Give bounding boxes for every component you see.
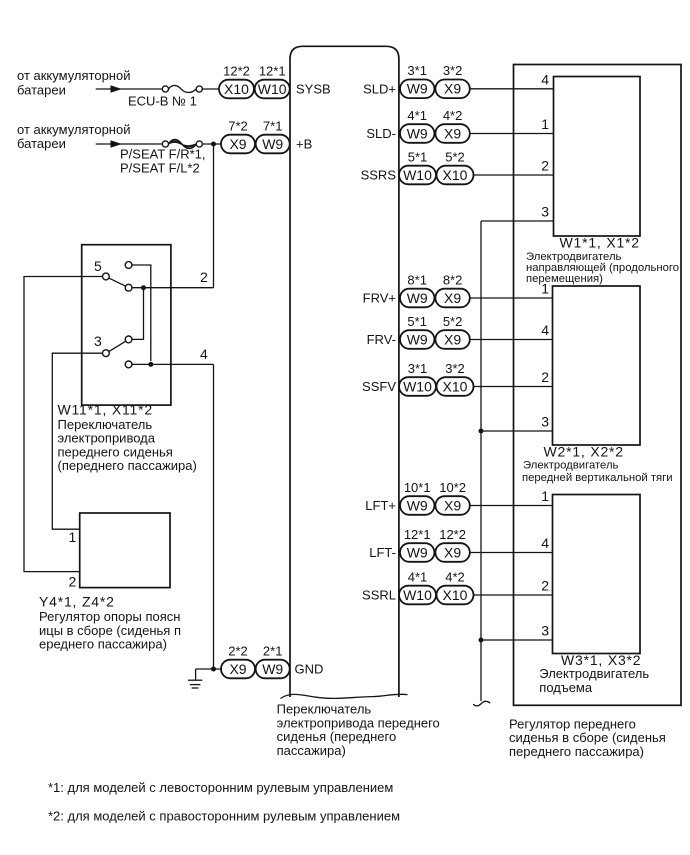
svg-text:Электродвигатель: Электродвигатель (523, 460, 619, 472)
wire: battery feed 1 to fuse (96, 88, 162, 90)
svg-text:X10: X10 (224, 81, 249, 97)
wire: contact D out to pin 4 (132, 363, 214, 365)
wire: SSFV to motor W2 pin 2 (474, 386, 553, 388)
svg-text:12*1: 12*1 (259, 63, 286, 78)
node: ground bus junction W2 (479, 429, 484, 434)
wire: SSRL to motor W3 pin 2 (474, 594, 553, 596)
svg-text:X9: X9 (444, 125, 461, 141)
wire: FRV+ to motor W2 pin 1 (470, 297, 553, 299)
svg-text:W9: W9 (262, 136, 283, 152)
svg-text:SLD+: SLD+ (363, 81, 396, 96)
contact D (lower fixed) (125, 361, 132, 368)
connector W10 pin 12*1 (255, 63, 290, 98)
svg-text:W2*1, X2*2: W2*1, X2*2 (544, 444, 624, 460)
connector X9 pin 7*2 (221, 118, 255, 153)
svg-text:12*2: 12*2 (439, 527, 466, 542)
svg-text:4*2: 4*2 (445, 569, 465, 584)
motor W3 body (553, 495, 641, 654)
svg-text:3*2: 3*2 (445, 361, 465, 376)
motor W1 label (526, 234, 679, 285)
svg-text:W10: W10 (403, 587, 432, 603)
svg-text:Регулятор переднего: Регулятор переднего (509, 716, 636, 731)
node: ground junction (211, 667, 216, 672)
svg-text:4: 4 (541, 535, 549, 551)
connector W10 pin 5*1 (399, 149, 436, 184)
svg-text:2: 2 (200, 269, 208, 285)
svg-text:пассажира): пассажира) (277, 743, 346, 758)
connector X9 pin 12*2 (435, 527, 469, 562)
wire: W2 pin 3 to ground bus (481, 430, 553, 432)
svg-text:передней вертикальной тяги: передней вертикальной тяги (522, 472, 673, 484)
torn edge of switch unit (281, 694, 408, 698)
svg-text:W10: W10 (403, 167, 432, 183)
switch unit label (277, 702, 440, 758)
svg-text:2: 2 (541, 158, 549, 174)
svg-text:электропривода переднего: электропривода переднего (277, 715, 440, 730)
svg-text:1: 1 (541, 281, 549, 297)
svg-text:от аккумуляторной: от аккумуляторной (17, 68, 130, 83)
connector W9 pin 8*1 (400, 272, 434, 307)
svg-text:ECU-B № 1: ECU-B № 1 (128, 93, 197, 108)
svg-text:5*2: 5*2 (445, 149, 465, 164)
svg-text:сиденья в сборе (сиденья: сиденья в сборе (сиденья (509, 730, 666, 745)
node: D junction (148, 362, 153, 367)
svg-text:W10: W10 (403, 378, 432, 394)
wire: switch pin 5 to lumbar motor pin 2 (24, 277, 103, 572)
svg-text:Переключатель: Переключатель (58, 417, 153, 432)
connector X9 pin 2*2 (221, 643, 255, 678)
wire: SLD+ to motor W1 pin 4 (470, 88, 554, 90)
svg-text:4*2: 4*2 (443, 108, 463, 123)
svg-text:переднего пассажира): переднего пассажира) (509, 744, 644, 759)
svg-text:X9: X9 (444, 544, 461, 560)
svg-text:W9: W9 (407, 544, 428, 560)
svg-text:3*1: 3*1 (407, 63, 427, 78)
svg-text:1: 1 (69, 529, 77, 545)
contact pin 3 (pole) (103, 350, 110, 357)
connector X9 pin 10*2 (435, 480, 469, 515)
svg-text:направляющей (продольного: направляющей (продольного (526, 262, 679, 274)
svg-text:перемещения): перемещения) (526, 273, 603, 285)
wire: W3 pin 3 to ground bus (481, 639, 553, 641)
svg-text:*1: для моделей с левосторонни: *1: для моделей с левосторонним рулевым … (48, 780, 393, 795)
connector X9 pin 5*2 (435, 314, 469, 349)
wire: contact A to right bus (132, 265, 151, 361)
svg-text:X9: X9 (444, 331, 461, 347)
wire: switch pin 4 down to ground junction (213, 364, 215, 669)
svg-text:12*1: 12*1 (404, 527, 431, 542)
connector W10 pin 4*1 (399, 569, 436, 604)
svg-text:7*2: 7*2 (228, 118, 248, 133)
svg-text:4: 4 (541, 322, 549, 338)
svg-text:переднего сиденья: переднего сиденья (58, 444, 173, 459)
wire: LFT+ to motor W3 pin 1 (470, 505, 553, 507)
svg-text:LFT-: LFT- (369, 545, 396, 560)
wire: contact B out to pin 2 (132, 287, 214, 289)
svg-text:(переднего пассажира): (переднего пассажира) (58, 458, 197, 473)
connector W9 pin 7*1 (256, 118, 290, 153)
arrow: feed 1 direction (111, 85, 122, 93)
node: battery feed label 1 (17, 68, 130, 97)
svg-text:5*1: 5*1 (407, 314, 427, 329)
svg-text:W10: W10 (258, 81, 287, 97)
svg-text:SYSB: SYSB (296, 81, 331, 96)
wire: SSRS to motor W1 pin 2 (474, 174, 554, 176)
svg-text:2*1: 2*1 (263, 643, 283, 658)
svg-text:батареи: батареи (17, 82, 66, 97)
svg-text:5*2: 5*2 (443, 314, 463, 329)
wire: W1 pin 3 to ground bus (481, 220, 554, 222)
svg-text:2*2: 2*2 (228, 643, 248, 658)
svg-text:2: 2 (541, 369, 549, 385)
connector X10 pin 4*2 (437, 569, 474, 604)
svg-text:8*1: 8*1 (407, 272, 427, 287)
svg-text:GND: GND (295, 661, 324, 676)
wire: fuse 1 to connector X10 (202, 88, 219, 90)
svg-text:8*2: 8*2 (443, 272, 463, 287)
svg-text:4*1: 4*1 (407, 108, 427, 123)
svg-text:+B: +B (296, 136, 312, 151)
connector W9 pin 3*1 (400, 63, 434, 98)
svg-text:W9: W9 (407, 125, 428, 141)
svg-text:5: 5 (94, 258, 102, 274)
connector X9 pin 8*2 (435, 272, 469, 307)
svg-text:W11*1, X11*2: W11*1, X11*2 (58, 402, 153, 418)
wire: LFT- to motor W3 pin 4 (470, 552, 553, 554)
svg-text:Регулятор опоры поясн: Регулятор опоры поясн (39, 609, 180, 624)
motor Y4 label (39, 594, 181, 652)
seat switch unit body (torn bottom) (290, 46, 399, 697)
svg-text:3*1: 3*1 (408, 361, 428, 376)
svg-text:P/SEAT F/L*2: P/SEAT F/L*2 (120, 161, 200, 176)
wire: fusible link to connector X9 (202, 143, 221, 145)
connector X9 pin 4*2 (435, 108, 469, 143)
svg-text:X10: X10 (443, 378, 468, 394)
svg-text:FRV+: FRV+ (363, 290, 396, 305)
wire: SLD- to motor W1 pin 1 (470, 133, 554, 135)
wire: +B branch down to switch pin 2 (213, 144, 215, 288)
motor W3 label (539, 652, 649, 695)
arrow: feed 2 direction (111, 140, 122, 148)
svg-text:от аккумуляторной: от аккумуляторной (17, 122, 130, 137)
svg-text:SSRL: SSRL (362, 587, 396, 602)
motor W2 label (522, 444, 673, 485)
svg-text:X9: X9 (444, 497, 461, 513)
wire: battery feed 2 to fusible link (96, 143, 162, 145)
seat adjuster assembly label (509, 716, 666, 759)
lever lower switch (109, 341, 126, 351)
svg-text:5*1: 5*1 (408, 149, 428, 164)
svg-text:ицы в сборе (сиденья п: ицы в сборе (сиденья п (39, 623, 181, 638)
lever upper switch (109, 278, 126, 286)
svg-text:X9: X9 (229, 661, 246, 677)
connector W9 pin 12*1 (400, 527, 434, 562)
svg-text:W1*1, X1*2: W1*1, X1*2 (560, 234, 640, 250)
svg-text:4*1: 4*1 (408, 569, 428, 584)
svg-text:батареи: батареи (17, 136, 66, 151)
svg-text:SSFV: SSFV (362, 379, 396, 394)
contact pin 5 (pole) (103, 273, 110, 280)
svg-text:W9: W9 (407, 497, 428, 513)
switch W11 label (58, 402, 197, 474)
ground symbol (188, 669, 202, 688)
svg-text:X9: X9 (444, 81, 461, 97)
node: B junction (141, 285, 146, 290)
svg-text:SLD-: SLD- (366, 126, 396, 141)
node: ground bus junction W3 (479, 638, 484, 643)
svg-text:X10: X10 (443, 587, 468, 603)
svg-text:SSRS: SSRS (361, 167, 397, 182)
svg-text:2: 2 (69, 574, 77, 590)
svg-text:электропривода: электропривода (58, 431, 156, 446)
svg-text:10*1: 10*1 (404, 480, 431, 495)
motor W2 body (553, 286, 641, 445)
node: +B branch junction (211, 142, 216, 147)
svg-text:1: 1 (541, 116, 549, 132)
svg-text:W9: W9 (407, 290, 428, 306)
svg-text:X10: X10 (443, 167, 468, 183)
svg-text:LFT+: LFT+ (365, 498, 396, 513)
connector W9 pin 5*1 (400, 314, 434, 349)
svg-text:W9: W9 (407, 331, 428, 347)
svg-text:FRV-: FRV- (367, 332, 396, 347)
connector W9 pin 4*1 (400, 108, 434, 143)
svg-text:2: 2 (541, 578, 549, 594)
wire: B junction down to contact C (132, 288, 144, 340)
svg-text:W9: W9 (262, 661, 283, 677)
svg-text:3: 3 (541, 414, 549, 430)
svg-text:Переключатель: Переключатель (277, 702, 372, 717)
fusible link P/SEAT F/R*1, P/SEAT F/L*2 (120, 139, 206, 175)
svg-text:3: 3 (541, 623, 549, 639)
switch W11 body (82, 245, 171, 405)
contact C (upper fixed of lower switch) (125, 336, 132, 343)
svg-text:*2: для моделей с правосторонн: *2: для моделей с правосторонним рулевым… (48, 809, 400, 824)
wire: ground bus (480, 221, 482, 701)
svg-text:Электродвигатель: Электродвигатель (539, 666, 649, 681)
wire: ground to connector X9 (196, 668, 221, 670)
contact A (upper fixed) (125, 262, 132, 269)
connector W9 pin 2*1 (256, 643, 290, 678)
svg-text:3: 3 (541, 204, 549, 220)
svg-text:сиденья (переднего: сиденья (переднего (277, 729, 397, 744)
svg-text:Электродвигатель: Электродвигатель (526, 251, 622, 263)
connector X9 pin 3*2 (435, 63, 469, 98)
svg-text:3: 3 (94, 333, 102, 349)
motor W1 body (554, 77, 641, 237)
svg-text:4: 4 (200, 346, 208, 362)
contact B (lower fixed of upper switch) (125, 284, 132, 291)
connector X10 pin 3*2 (437, 361, 474, 396)
connector W9 pin 10*1 (400, 480, 434, 515)
svg-text:4: 4 (541, 71, 549, 87)
svg-text:X9: X9 (444, 290, 461, 306)
svg-text:ереднего пассажира): ереднего пассажира) (39, 637, 167, 652)
svg-text:P/SEAT F/R*1,: P/SEAT F/R*1, (120, 147, 206, 162)
svg-text:Y4*1, Z4*2: Y4*1, Z4*2 (39, 594, 115, 610)
fuse ECU-B № 1 (128, 85, 202, 108)
seat adjuster assembly outer box (514, 65, 682, 706)
svg-text:7*1: 7*1 (263, 118, 283, 133)
connector W10 pin 3*1 (399, 361, 436, 396)
connector X10 pin 12*2 (219, 63, 254, 98)
svg-text:12*2: 12*2 (223, 63, 250, 78)
svg-text:W9: W9 (407, 81, 428, 97)
motor Y4 lumbar support body (80, 513, 170, 588)
svg-text:3*2: 3*2 (443, 63, 463, 78)
connector X10 pin 5*2 (437, 149, 474, 184)
wire: switch pin 3 to lumbar motor pin 1 (52, 353, 102, 529)
wire: FRV- to motor W2 pin 4 (470, 339, 553, 341)
svg-text:10*2: 10*2 (439, 480, 466, 495)
node: battery feed label 2 (17, 122, 130, 151)
svg-text:X9: X9 (229, 136, 246, 152)
chassis ground wave (473, 701, 490, 706)
svg-text:1: 1 (541, 488, 549, 504)
svg-text:подъема: подъема (539, 680, 593, 695)
